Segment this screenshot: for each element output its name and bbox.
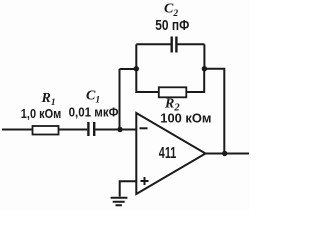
svg-text:50 пФ: 50 пФ bbox=[155, 17, 189, 34]
svg-text:0,01 мкФ: 0,01 мкФ bbox=[69, 104, 119, 119]
svg-text:1,0 кОм: 1,0 кОм bbox=[21, 106, 62, 121]
svg-text:411: 411 bbox=[159, 145, 177, 162]
svg-text:100 кОм: 100 кОм bbox=[160, 110, 211, 125]
